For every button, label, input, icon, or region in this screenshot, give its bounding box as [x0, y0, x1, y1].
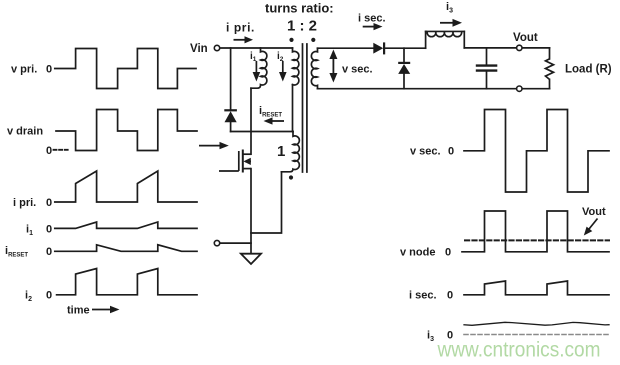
arrow i sec.: [363, 23, 383, 30]
dot primary phase: [289, 38, 293, 42]
wire capacitor bottom lead: [486, 71, 488, 88]
wire capacitor top lead: [486, 48, 488, 65]
wire v drain zero dashes: [54, 149, 69, 151]
svg-text:i sec.: i sec.: [409, 290, 437, 302]
waveform i3 ripple trace: [464, 322, 609, 325]
transformer core: [303, 44, 307, 172]
wire inductor left lead: [425, 31, 427, 48]
waveform v pri. trace: [55, 49, 196, 89]
svg-text:0: 0: [46, 290, 52, 302]
wire freewheel anode: [403, 74, 405, 89]
svg-text:0: 0: [448, 146, 454, 158]
svg-text:Vout: Vout: [513, 32, 538, 44]
terminal output bottom circle: [517, 86, 522, 91]
svg-text:0: 0: [46, 145, 52, 157]
svg-text:0: 0: [46, 64, 52, 76]
wire bottom rail secondary: [318, 88, 550, 90]
svg-text:i pri.: i pri.: [13, 197, 36, 209]
svg-text:0: 0: [46, 197, 52, 209]
wire top rail primary: [220, 47, 293, 49]
svg-text:Vout: Vout: [582, 206, 606, 218]
wire top rail output: [464, 47, 549, 49]
svg-text:0: 0: [447, 290, 453, 302]
wire input bottom terminal: [220, 242, 251, 244]
arrow time: [92, 306, 120, 314]
terminal Vout circle: [517, 45, 522, 50]
waveform v node trace: [462, 211, 609, 252]
svg-text:v node: v node: [400, 247, 435, 259]
waveform iRESET trace: [55, 245, 197, 252]
wire clamp branch lower: [230, 122, 232, 131]
node i3 zero dashed line: [464, 334, 609, 336]
winding reset 1: [282, 132, 300, 172]
arrow i3: [440, 19, 462, 27]
capacitor C1 plates: [476, 66, 498, 71]
svg-text:v pri.: v pri.: [11, 64, 37, 76]
wire reset winding return: [251, 172, 282, 233]
wire drain vertical: [250, 88, 252, 154]
svg-text:0: 0: [445, 247, 451, 259]
dot secondary phase: [311, 38, 315, 42]
svg-text:0: 0: [46, 223, 52, 235]
node Vout level dashed line: [465, 239, 609, 241]
wire top rail secondary: [318, 47, 375, 49]
terminal Vin circle: [214, 45, 219, 50]
svg-text:Load (R): Load (R): [565, 64, 612, 76]
diode D3 freewheel: [398, 62, 410, 74]
svg-text:1 : 2: 1 : 2: [287, 18, 317, 35]
diode D1 clamp: [224, 109, 237, 122]
wire winding B to drain node: [292, 85, 294, 132]
svg-text:1: 1: [277, 143, 285, 160]
arrow iRESET left: [264, 117, 285, 124]
wire top rail after rectifier: [385, 47, 426, 49]
svg-text:time: time: [67, 305, 90, 317]
waveform v drain trace: [56, 110, 197, 151]
inductor L1: [426, 31, 465, 36]
transistor Q1 MOSFET: [219, 150, 251, 173]
diode D2 rectifier: [373, 42, 385, 54]
waveform i1 trace: [55, 222, 197, 228]
arrow gate drive: [199, 142, 229, 149]
arrow i1 down: [253, 61, 261, 82]
svg-text:v sec.: v sec.: [342, 64, 373, 76]
svg-text:Vin: Vin: [190, 43, 208, 55]
winding primary A: [251, 48, 267, 88]
arrow v sec. double: [329, 50, 337, 83]
wire drain node horizontal: [231, 131, 293, 133]
wire clamp branch upper: [230, 48, 232, 109]
winding secondary: [311, 48, 317, 88]
wire load branch: [549, 48, 551, 89]
wire inductor right lead: [463, 31, 465, 48]
svg-text:i pri.: i pri.: [226, 21, 255, 35]
waveform i sec. trace: [464, 281, 609, 295]
svg-text:v sec.: v sec.: [410, 146, 441, 158]
svg-text:v drain: v drain: [7, 126, 43, 138]
dot reset winding phase: [289, 175, 293, 179]
waveform v sec. trace: [464, 110, 609, 193]
wire freewheel branch: [403, 48, 405, 62]
arrow i2 down: [279, 61, 287, 82]
svg-text:www.cntronics.com: www.cntronics.com: [437, 339, 601, 362]
winding primary B: [293, 48, 299, 85]
waveform i pri. trace: [55, 171, 197, 202]
resistor Load R zigzag: [546, 59, 554, 80]
svg-text:i sec.: i sec.: [358, 13, 386, 25]
transistor Q1 body arrow: [243, 158, 250, 165]
wire source vertical: [250, 169, 252, 253]
terminal input bottom circle: [214, 240, 219, 245]
ground: [241, 254, 261, 264]
arrow i pri.: [234, 36, 254, 43]
arrow Vout pointer: [584, 219, 598, 236]
waveform i2 trace: [57, 269, 197, 295]
svg-text:turns ratio:: turns ratio:: [265, 1, 334, 16]
svg-text:0: 0: [46, 246, 52, 258]
